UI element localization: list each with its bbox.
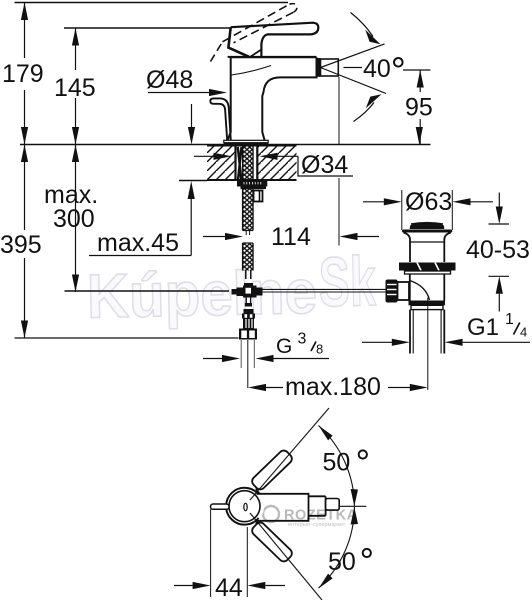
- datum line handle level: [64, 27, 231, 29]
- svg-text:G1: G1: [467, 314, 499, 341]
- dim 179 arrow up: [21, 3, 28, 21]
- 40 deg lower ray: [321, 68, 387, 94]
- dim 179 vertical line: [24, 3, 26, 59]
- svg-text:3: 3: [298, 331, 307, 348]
- drain plug cap dome: [410, 223, 445, 229]
- 40deg leader: [344, 67, 363, 69]
- svg-text:4: 4: [520, 325, 527, 340]
- dim 145 arrow down at deck: [72, 127, 79, 145]
- deck hatched band right: [258, 146, 297, 180]
- drain flange: [399, 263, 456, 271]
- dim O63 left arrow: [363, 201, 384, 203]
- coupling ring: [411, 305, 443, 309]
- upper arc arrowheads: [351, 489, 358, 506]
- dim 114 right arrow: [340, 233, 358, 240]
- flex hose lower braid: [243, 243, 253, 271]
- drain body bottom: [409, 301, 446, 306]
- svg-text:Ø48: Ø48: [146, 66, 193, 94]
- deck hatched band left: [207, 146, 235, 180]
- dim G38 left arrow: [203, 358, 224, 360]
- shank wedges: [238, 147, 242, 180]
- datum line top (max height): [15, 2, 289, 4]
- svg-text:8: 8: [316, 342, 323, 357]
- dim max300 arrow down: [72, 275, 79, 293]
- spout end tab: [326, 499, 340, 511]
- dim G38 right arrow + leader: [256, 355, 274, 362]
- svg-text:max.45: max.45: [97, 229, 179, 257]
- max45 underline: [89, 255, 191, 257]
- dim max45 upper arrow: [191, 104, 193, 128]
- dim max300 arrow up at deck: [72, 145, 79, 163]
- tube below T: [245, 298, 247, 304]
- deck top edge: [207, 145, 297, 147]
- drain neck: [404, 233, 451, 263]
- rod to drain (double line): [263, 288, 386, 290]
- dim 395 arrow down: [21, 321, 28, 339]
- svg-text:145: 145: [54, 74, 96, 102]
- 50 deg lower arc: [319, 507, 355, 588]
- svg-text:40-53: 40-53: [466, 236, 530, 264]
- dim 44 extension lines: [210, 509, 212, 597]
- lever raised dashed: [211, 4, 297, 62]
- deck top datum line: [20, 144, 431, 146]
- dim 40-53 lower datum: [489, 275, 510, 277]
- svg-text:50: 50: [328, 548, 356, 576]
- dim 95 line: [419, 70, 421, 92]
- hose end tube: [245, 271, 247, 280]
- svg-text:max.180: max.180: [285, 373, 381, 401]
- dim 44 right arrow: [247, 582, 265, 589]
- dim 145 vertical line: [75, 28, 77, 70]
- lever handle solid: [228, 23, 318, 56]
- tailpipe: [409, 310, 411, 354]
- pop-up rod top view: [211, 504, 230, 509]
- svg-text:G: G: [276, 335, 292, 358]
- dim 114 left arrow: [203, 236, 228, 238]
- knob housing: [398, 282, 410, 300]
- hose gap ticks: [245, 231, 247, 236]
- dim max180 left arrow: [248, 384, 266, 391]
- outlet fitting right: [254, 191, 263, 202]
- dim O34 left arrow: [194, 155, 214, 157]
- 50 deg upper arc: [319, 426, 355, 507]
- dim G1 1/4 right arrow + leader: [445, 339, 463, 346]
- dim 145 arrow up: [72, 28, 79, 46]
- G38 connector stack: [244, 309, 254, 314]
- 40 deg upper ray: [321, 44, 385, 68]
- aerator box: [321, 59, 339, 76]
- 40 deg upper arc arrow: [351, 13, 374, 37]
- G38 extension lines: [240, 340, 242, 368]
- max180 centerline left: [247, 340, 249, 388]
- base plate: [224, 140, 268, 142]
- dim max45 lower arrow: [188, 181, 195, 199]
- svg-text:300: 300: [53, 205, 95, 233]
- dim 40-53 lower arrow: [496, 276, 503, 294]
- svg-text:Kúpelne: Kúpelne: [86, 258, 317, 332]
- aerator extension line: [338, 77, 340, 145]
- dim 44 left arrow: [174, 585, 193, 587]
- svg-text:395: 395: [0, 231, 42, 259]
- dim 40-53 upper arrow: [498, 193, 500, 208]
- dim max300 vertical line: [75, 145, 77, 293]
- dim 95 arrow down: [416, 127, 423, 145]
- datum line max300 bottom / hose line: [65, 290, 230, 292]
- dim O63 right arrow: [453, 198, 471, 205]
- deck bottom edge: [207, 179, 297, 181]
- circle body fill: [225, 487, 264, 526]
- faucet body outline: [228, 57, 317, 140]
- ring inner circle: [229, 491, 260, 522]
- dim 95 arrow up: [417, 70, 424, 88]
- svg-text:179: 179: [2, 60, 44, 88]
- drain under lip: [405, 271, 451, 274]
- datum line 395 bottom: [15, 337, 239, 339]
- svg-text:Ø34: Ø34: [301, 151, 348, 179]
- body interior curve: [232, 66, 272, 76]
- dim O48 leader and arrow: [148, 92, 212, 94]
- T cross fitting at hose line: [232, 289, 237, 295]
- locknut below deck: [237, 181, 267, 187]
- deck bottom line left extension: [179, 180, 207, 182]
- svg-text:Ø63: Ø63: [405, 188, 452, 216]
- svg-text:40: 40: [363, 55, 391, 83]
- 95 datum line: [403, 69, 431, 71]
- watermark KupelneSk: [86, 242, 377, 332]
- faucet top edge: [228, 56, 317, 58]
- svg-text:114: 114: [271, 223, 311, 251]
- drain body: [409, 274, 411, 301]
- centerline horizontal: [340, 505, 367, 507]
- spout arm top view: [257, 494, 326, 521]
- centerline upper handle: [250, 408, 329, 500]
- hose end nut: [244, 283, 253, 288]
- pop-up rod hook: [214, 98, 231, 140]
- watermark rozetka logo: [251, 506, 358, 528]
- hole left edge: [234, 146, 236, 180]
- dim 395 arrow up at deck: [21, 145, 28, 163]
- handle capsule lower: [250, 520, 294, 563]
- dim G1 1/4 left arrow: [362, 341, 392, 343]
- lower arc arrowheads: [351, 507, 358, 525]
- aerator neck: [317, 58, 321, 77]
- svg-text:1: 1: [505, 311, 514, 328]
- G38 bottom nut: [239, 329, 257, 340]
- svg-text:интернет-супермаркет: интернет-супермаркет: [288, 522, 346, 528]
- hole right edge: [256, 146, 258, 180]
- ring outer arc: [226, 488, 259, 525]
- cartridge stem mark: [244, 503, 247, 511]
- svg-text:Sk: Sk: [318, 242, 377, 321]
- O63 extension lines: [401, 190, 403, 230]
- dim max180 right arrow: [388, 387, 410, 389]
- drain centerline: [427, 298, 429, 391]
- handle capsule upper: [250, 448, 294, 491]
- centerline lower handle: [250, 513, 322, 600]
- shank braid through deck: [243, 146, 253, 180]
- 40 deg lower arc arrow: [354, 103, 375, 122]
- svg-text:50: 50: [323, 449, 351, 477]
- dim 395 vertical line: [24, 145, 26, 231]
- dim 179 arrow down at deck: [21, 127, 28, 145]
- svg-text:95: 95: [405, 94, 433, 122]
- dim O34 right arrow: [260, 153, 278, 160]
- drain plug lip: [402, 230, 452, 233]
- dim 40-53 upper datum: [489, 223, 510, 225]
- O34 label leader: [298, 156, 353, 176]
- svg-text:44: 44: [215, 574, 243, 600]
- neck fillets: [256, 489, 261, 524]
- flex hose upper braid: [243, 189, 253, 231]
- knurled knob: [386, 280, 398, 303]
